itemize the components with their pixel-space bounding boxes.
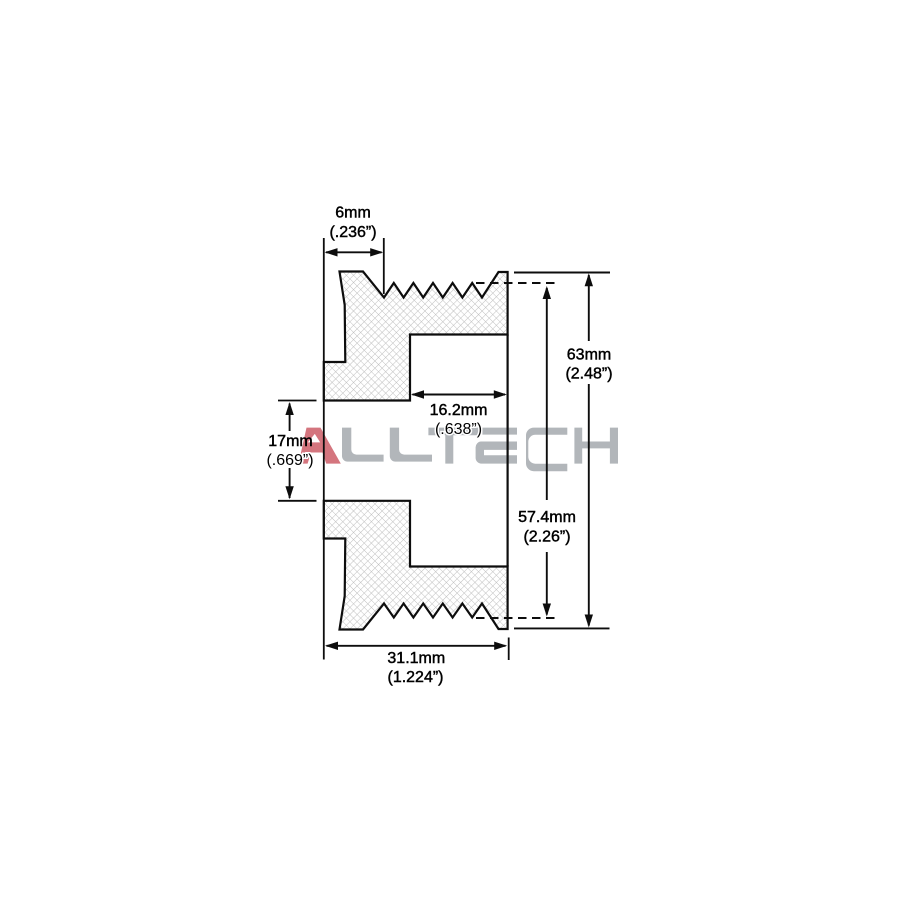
svg-text:(.236”): (.236”) xyxy=(329,224,376,241)
watermark letter A (red) xyxy=(299,428,341,464)
node dashed reference line bottom (57.4mm) xyxy=(476,617,559,619)
dimension 17mm vertical line xyxy=(289,404,291,432)
svg-text:(.669”): (.669”) xyxy=(266,452,313,469)
dimension 57.4mm vertical line xyxy=(546,288,548,500)
svg-text:(2.48”): (2.48”) xyxy=(565,366,612,383)
svg-text:16.2mm: 16.2mm xyxy=(430,402,488,419)
node dashed reference line top (57.4mm) xyxy=(476,282,558,284)
node 17mm bottom extension line xyxy=(278,500,317,502)
watermark letter H xyxy=(574,428,618,464)
svg-text:63mm: 63mm xyxy=(567,347,611,364)
dimension 63mm vertical line xyxy=(588,275,590,341)
watermark letter E xyxy=(482,428,517,435)
svg-text:(2.26”): (2.26”) xyxy=(523,529,570,546)
dimension 31.1mm arrow line xyxy=(327,645,506,647)
node left extension line (6mm / 31.1mm / bore boundary) xyxy=(323,238,325,660)
svg-text:6mm: 6mm xyxy=(335,205,371,222)
svg-text:57.4mm: 57.4mm xyxy=(518,509,576,526)
node 31.1mm right extension line xyxy=(508,638,510,661)
watermark letter T xyxy=(428,428,480,464)
pulley lower half cross-section (hatched, mirror) xyxy=(324,501,508,630)
node 17mm top extension line xyxy=(278,400,317,402)
svg-text:17mm: 17mm xyxy=(268,433,312,450)
watermark letter C xyxy=(526,428,567,472)
watermark letter L2 xyxy=(390,428,432,462)
pulley upper half cross-section (hatched) xyxy=(324,272,508,401)
node 6mm right extension line xyxy=(383,238,385,294)
dimension 6mm arrow line xyxy=(326,251,382,253)
node 63mm top extension line xyxy=(514,272,610,274)
watermark letter L1 xyxy=(342,428,384,462)
node 63mm bottom extension line xyxy=(514,627,610,629)
svg-text:(1.224”): (1.224”) xyxy=(387,669,443,686)
wire right edge of hub bore region xyxy=(507,335,509,567)
svg-text:(.638”): (.638”) xyxy=(435,421,482,438)
svg-text:31.1mm: 31.1mm xyxy=(387,650,445,667)
dimension 16.2mm arrow line xyxy=(413,394,506,396)
